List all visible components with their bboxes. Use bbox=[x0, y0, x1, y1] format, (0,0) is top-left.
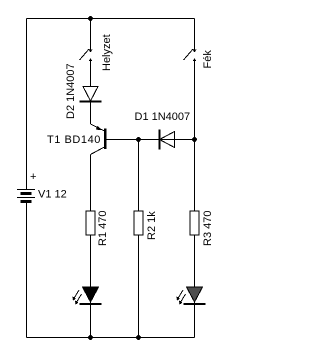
svg-text:R2 1k: R2 1k bbox=[146, 211, 158, 240]
LED D3 bbox=[73, 287, 102, 305]
diode D1 bbox=[160, 130, 175, 150]
wire R2 branch lower bbox=[138, 235, 140, 338]
wire R1 to LED1 and bottom rail bbox=[90, 235, 92, 338]
wire helyzet switch to diode D2 bbox=[90, 59, 92, 87]
node top rail / helyzet junction bbox=[88, 16, 93, 21]
wire fek branch top (rail to switch) bbox=[194, 19, 196, 53]
battery V1 bbox=[17, 190, 35, 202]
svg-text:D1 1N4007: D1 1N4007 bbox=[135, 111, 191, 123]
svg-text:D2 1N4007: D2 1N4007 bbox=[65, 63, 77, 119]
wire R2 branch upper bbox=[138, 140, 140, 212]
resistor R2 bbox=[134, 211, 143, 235]
resistor R3 bbox=[190, 211, 199, 235]
wire base net horizontal bbox=[107, 139, 195, 141]
wire bottom rail bbox=[27, 337, 195, 339]
wire left rail upper (to battery +) bbox=[26, 19, 28, 190]
node base / R2 junction bbox=[136, 137, 141, 142]
svg-text:T1 BD140: T1 BD140 bbox=[47, 134, 101, 146]
wire fek switch down to R3 bbox=[194, 59, 196, 212]
transistor T1 BD140 bbox=[91, 124, 107, 155]
diode D2 bbox=[80, 87, 102, 102]
node bottom rail / R2 junction bbox=[136, 335, 141, 340]
wire top rail bbox=[27, 18, 195, 20]
switch S1 Helyzet bbox=[80, 49, 93, 61]
svg-text:Fék: Fék bbox=[202, 50, 214, 69]
svg-text:Helyzet: Helyzet bbox=[101, 34, 113, 71]
svg-text:R3 470: R3 470 bbox=[202, 211, 214, 246]
svg-text:V1 12: V1 12 bbox=[38, 189, 67, 201]
LED D4 bbox=[177, 287, 206, 305]
node base / R3 junction bbox=[192, 137, 197, 142]
resistor R1 bbox=[86, 211, 95, 235]
node bottom rail / LED1 junction bbox=[88, 335, 93, 340]
wire D2 cathode to emitter bend bbox=[90, 102, 92, 125]
wire left rail lower (battery - to bottom rail) bbox=[26, 202, 28, 338]
switch S2 Fek bbox=[184, 49, 197, 61]
wire collector down to R1 bbox=[90, 155, 92, 212]
svg-text:R1 470: R1 470 bbox=[97, 211, 109, 246]
svg-text:+: + bbox=[30, 171, 36, 183]
wire helyzet branch top (rail to switch) bbox=[90, 19, 92, 53]
wire R3 to LED2 and bottom rail bbox=[194, 235, 196, 338]
